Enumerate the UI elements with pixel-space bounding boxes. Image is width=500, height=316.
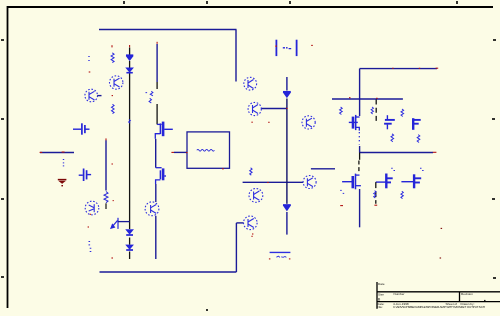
red junction at box pin bbox=[186, 152, 188, 154]
wire gate rail horizontal bbox=[332, 98, 403, 100]
small blue text squiggles bbox=[63, 53, 424, 258]
svg-text:Size: Size bbox=[378, 292, 384, 296]
wire base rail to Q4 bbox=[243, 181, 304, 183]
svg-text:Date: Date bbox=[378, 282, 385, 286]
wire bottom loop right vertical bbox=[235, 223, 237, 272]
transistor Q4 bbox=[303, 176, 316, 189]
red label below Q2 bbox=[251, 121, 252, 123]
wire node segment bbox=[311, 168, 335, 170]
transistor Q11 (arrow, no circle) bbox=[111, 218, 130, 229]
wire into box U1 bbox=[174, 151, 187, 153]
transistor Q5 bbox=[249, 189, 263, 203]
black dashes below bbox=[358, 161, 360, 174]
transistor Q9 bbox=[85, 201, 99, 215]
red label left mid bbox=[112, 163, 113, 165]
diode D2 bbox=[126, 68, 133, 73]
wire below Q10 bbox=[155, 216, 157, 259]
text above C3 bbox=[391, 168, 395, 170]
capacitor C1 bbox=[384, 115, 395, 129]
dark red dot right side bbox=[441, 227, 443, 229]
capacitor C6 bbox=[79, 169, 91, 182]
text below C4 bbox=[401, 191, 403, 198]
net label line bottom middle bbox=[270, 251, 291, 253]
sheet border top bbox=[7, 6, 493, 8]
opto box U1 bbox=[187, 132, 230, 168]
wire right column vertical lower bbox=[359, 189, 361, 227]
text dots left of Q7 bbox=[88, 57, 89, 61]
svg-text:File:: File: bbox=[377, 305, 383, 309]
red label near Q8 bbox=[112, 95, 113, 97]
title block divider revision bbox=[459, 292, 461, 302]
diode D4 bbox=[283, 205, 291, 211]
red net label marks bbox=[40, 42, 443, 259]
mosfet M2 bbox=[156, 168, 166, 184]
red mark on box bottom bbox=[222, 168, 224, 170]
wire right column vertical mid bbox=[359, 146, 361, 153]
dark red dot right side b bbox=[440, 257, 442, 259]
mosfet MA (top right) bbox=[349, 115, 360, 131]
transistor Q3 bbox=[244, 216, 258, 230]
text above C2 bbox=[401, 109, 404, 117]
resistor R1 zigzag bbox=[104, 192, 108, 203]
wire M1 source to M2 drain bbox=[155, 139, 157, 168]
text label under Q8 bbox=[112, 104, 115, 113]
net label text bottom middle bbox=[276, 256, 286, 257]
capacitor C3 bbox=[376, 174, 393, 189]
text dots bottom left bbox=[89, 242, 92, 252]
red label below Q9 bbox=[88, 226, 89, 228]
red net tick on bias resistor column bbox=[105, 138, 107, 140]
text left of MA bbox=[340, 107, 343, 115]
transistor Q6 bbox=[302, 116, 315, 129]
diode D1 bbox=[126, 55, 133, 60]
dotted segment below MA bbox=[358, 132, 360, 145]
mosfet M3 (lower right) bbox=[342, 174, 361, 190]
black dashed stub right rail bbox=[375, 100, 377, 124]
title block left edge bbox=[376, 282, 378, 309]
text label vertical near top-left R bbox=[111, 53, 114, 63]
capacitor C2 bbox=[413, 118, 421, 130]
mosfet M1 bbox=[155, 122, 173, 139]
red label above Q11 bbox=[113, 200, 114, 202]
red label top rail end bbox=[436, 67, 439, 69]
capacitor C3 lead down (black dashes) bbox=[375, 182, 377, 204]
svg-text:C:\ADVSCH98\EXAMPLES\POWER AMP: C:\ADVSCH98\EXAMPLES\POWER AMP WITH MOSF… bbox=[393, 305, 485, 309]
text above C4 bbox=[420, 168, 424, 170]
red label on base rail bbox=[267, 182, 269, 184]
text blob near driver column break bbox=[146, 91, 153, 103]
capacitor C5 (input) bbox=[73, 123, 90, 134]
wire to transistor Q3 bbox=[236, 222, 243, 224]
ground symbol (dark red) bbox=[58, 180, 67, 187]
sheet border left bbox=[7, 6, 9, 308]
text tick on diode column bbox=[129, 119, 131, 123]
red dot label line left bbox=[269, 258, 271, 260]
wire input stub bbox=[40, 152, 74, 154]
text below C2 bbox=[417, 135, 420, 143]
wire Q2 emitter to center column bbox=[261, 108, 287, 110]
red label below M3 bbox=[340, 205, 343, 207]
red label input wire end bbox=[40, 151, 43, 153]
resistor R1 (on left vertical) bbox=[105, 140, 107, 190]
connector J1 bars bbox=[276, 40, 296, 56]
transistor Q8 bbox=[85, 89, 102, 102]
title block row line 1 bbox=[377, 291, 500, 293]
red net tick on diode column bbox=[129, 45, 131, 47]
wire right column vertical upper bbox=[359, 69, 361, 116]
red label on input wire bbox=[62, 151, 65, 153]
red label near Q7 bbox=[89, 71, 91, 73]
wire top loop right vertical bbox=[235, 30, 237, 82]
red mark on connector bar bbox=[275, 45, 277, 47]
title block divider small bbox=[484, 300, 486, 302]
wire top loop horizontal bbox=[99, 29, 237, 31]
red label right of connector bbox=[311, 44, 313, 46]
transistor Q7 bbox=[110, 76, 123, 89]
red label mid bbox=[268, 121, 269, 123]
diode D5 bbox=[126, 230, 133, 235]
red label under Q9 bbox=[90, 213, 91, 215]
diode D3 bbox=[283, 92, 291, 98]
red tick on top rail bbox=[392, 67, 393, 69]
svg-text:Number: Number bbox=[394, 292, 405, 296]
red net tick on driver column bbox=[156, 42, 158, 44]
text below C3 bbox=[374, 191, 376, 198]
red dot label line right bbox=[289, 258, 291, 260]
transistor Q1 bbox=[244, 77, 257, 90]
title block row line 2 bbox=[377, 301, 500, 303]
capacitor C4 bbox=[401, 174, 421, 188]
red label below Q3 bbox=[252, 233, 253, 235]
node center column (vertical net with diodes) bbox=[286, 77, 288, 235]
transistor Q2 bbox=[248, 102, 261, 115]
black stub under R1 bbox=[105, 203, 107, 209]
diode D6 bbox=[126, 245, 133, 250]
red junction node center column bbox=[286, 107, 288, 109]
red label below Q3 b bbox=[251, 235, 252, 237]
node driver column x157 bbox=[156, 44, 158, 124]
wire top right rail horizontal bbox=[360, 68, 437, 70]
red tick on gate rail b bbox=[376, 97, 378, 99]
red tick on top rail b bbox=[419, 67, 420, 69]
wire M2 source down bbox=[155, 184, 157, 202]
node left diode string (black net) bbox=[129, 48, 131, 260]
black segment below output junction bbox=[359, 153, 361, 160]
text left column mid bbox=[250, 168, 252, 175]
text dots below input wire bbox=[63, 160, 64, 166]
wire output rail horizontal bbox=[360, 152, 433, 154]
transistor Q10 (on driver column) bbox=[145, 202, 159, 216]
text below C1 bbox=[391, 134, 394, 142]
red tick on gate rail bbox=[349, 97, 351, 99]
svg-text:Revision: Revision bbox=[461, 292, 473, 296]
red label output rail end bbox=[433, 151, 437, 153]
text squiggle beside dashed stub bbox=[371, 107, 373, 114]
text below M3 gate bbox=[340, 190, 344, 193]
red label at box input wire bbox=[171, 151, 174, 153]
red label bottom left bbox=[111, 257, 113, 259]
red label below C3 lead bbox=[374, 204, 377, 206]
red net tick on resistor column bbox=[111, 45, 113, 47]
wire bottom loop horizontal bbox=[100, 271, 237, 273]
